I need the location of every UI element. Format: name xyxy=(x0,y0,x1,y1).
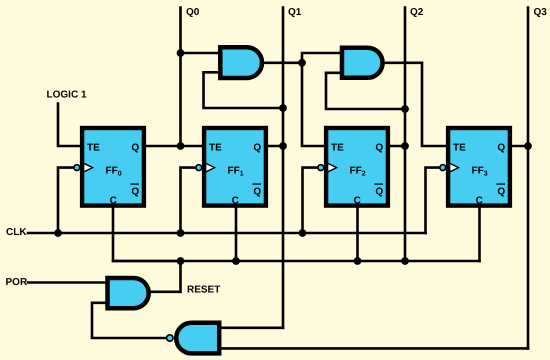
svg-text:Q0: Q0 xyxy=(186,7,200,18)
wire: NAND upper input from Q1 rail xyxy=(221,326,283,329)
NAND gate U4 output bubble xyxy=(167,335,173,341)
svg-text:Q: Q xyxy=(253,143,261,154)
wire: RESET horizontal line xyxy=(113,260,480,263)
svg-text:TE: TE xyxy=(331,143,344,154)
wire: gate A output up to gate B upper input xyxy=(302,53,342,63)
svg-text:Q: Q xyxy=(131,187,139,198)
node: junction Q1 takeoff at FF1 Q xyxy=(279,142,287,150)
flip-flop FF2 xyxy=(318,128,388,207)
flip-flop FF0 xyxy=(74,128,144,207)
wire: gate A output down to FF2 TE xyxy=(302,63,324,146)
node: CLK to FF0 clock xyxy=(54,229,62,237)
wire: FF1 Q to Q1 rail xyxy=(268,145,283,148)
wire: FF3 C down to reset line xyxy=(478,207,481,261)
wire: POR input to POR gate xyxy=(28,281,108,284)
svg-text:Q: Q xyxy=(253,187,261,198)
svg-text:C: C xyxy=(110,196,117,207)
wire: POR gate output up to reset line xyxy=(151,261,181,292)
wire: LOGIC 1 feed to FF0 TE xyxy=(58,104,80,147)
svg-text:Q: Q xyxy=(497,143,505,154)
node: RESET to Q2 rail xyxy=(401,257,409,265)
wire: FF1 clock feed from CLK line xyxy=(181,168,196,233)
node: RESET to FF1 C xyxy=(232,257,240,265)
svg-text:Q2: Q2 xyxy=(410,7,424,18)
node: junction Q0 / gate A upper input xyxy=(177,49,185,57)
wire: gate A output node xyxy=(264,61,302,64)
node: junction Q2 / gate B lower input xyxy=(401,105,409,113)
node: junction Q3 takeoff at FF3 Q xyxy=(524,142,532,150)
svg-text:Q3: Q3 xyxy=(534,7,548,18)
node: RESET to FF2 C xyxy=(354,257,362,265)
svg-text:CLK: CLK xyxy=(6,227,27,238)
flip-flop FF3 xyxy=(440,128,510,207)
node: RESET to POR gate output xyxy=(177,257,185,265)
AND gate A (Q0 AND Q1) xyxy=(220,47,262,78)
svg-text:Q: Q xyxy=(131,143,139,154)
wire: gate B lower input from Q2 rail xyxy=(326,73,405,109)
AND gate U3 (POR gate) xyxy=(108,278,149,308)
svg-text:POR: POR xyxy=(6,277,28,288)
wire: FF3 clock feed from CLK line end xyxy=(426,168,440,233)
node: junction Q2 takeoff at FF2 Q xyxy=(401,142,409,150)
svg-text:TE: TE xyxy=(209,143,222,154)
svg-text:TE: TE xyxy=(453,143,466,154)
node: gate A output junction xyxy=(298,59,306,67)
wire: NAND lower input from Q3 rail xyxy=(221,347,528,350)
wire: Q0 vertical rail xyxy=(179,8,182,147)
AND gate B (gateA AND Q2) xyxy=(342,48,383,78)
flip-flop FF1 xyxy=(196,128,266,207)
node: junction Q0 takeoff at FF0 Q xyxy=(177,142,185,150)
wire: FF0 Q to FF1 TE xyxy=(146,145,202,148)
wire: CLK horizontal line xyxy=(28,232,426,235)
svg-text:C: C xyxy=(232,196,239,207)
wire: FF2 Q to Q2 rail xyxy=(390,145,405,148)
wire: FF2 C down to reset line xyxy=(356,207,359,261)
node: CLK to FF2 clock xyxy=(299,229,307,237)
svg-text:C: C xyxy=(354,196,361,207)
wire: FF2 clock feed from CLK line xyxy=(303,168,318,233)
wire: gate B output to FF3 TE xyxy=(385,63,447,146)
wire: FF0 clock feed from CLK line xyxy=(58,168,73,233)
svg-text:Q1: Q1 xyxy=(288,7,302,18)
svg-text:C: C xyxy=(476,196,483,207)
wire: Q1 vertical rail xyxy=(282,8,285,328)
node: junction Q1 / gate A lower input xyxy=(279,104,287,112)
svg-text:Q: Q xyxy=(497,187,505,198)
wire: gate A upper input from Q0 rail xyxy=(181,52,222,55)
wire: FF0 C down to reset line xyxy=(113,207,181,261)
wire: gate A lower input from Q1 rail xyxy=(204,72,284,108)
node: CLK to FF1 clock xyxy=(177,229,185,237)
svg-text:Q: Q xyxy=(375,143,383,154)
wire: Q2 vertical rail xyxy=(404,8,407,262)
svg-text:Q: Q xyxy=(375,187,383,198)
wire: FF3 Q to Q3 rail xyxy=(512,145,528,148)
NAND gate U4 (left facing, Q1 AND Q3) xyxy=(176,323,219,354)
svg-text:RESET: RESET xyxy=(187,285,220,296)
wire: Q3 vertical rail xyxy=(527,8,530,349)
wire: FF1 C down to reset line xyxy=(235,207,238,261)
svg-text:TE: TE xyxy=(87,143,100,154)
wire: NAND output to POR gate lower input xyxy=(92,303,166,338)
svg-text:LOGIC 1: LOGIC 1 xyxy=(47,90,87,101)
